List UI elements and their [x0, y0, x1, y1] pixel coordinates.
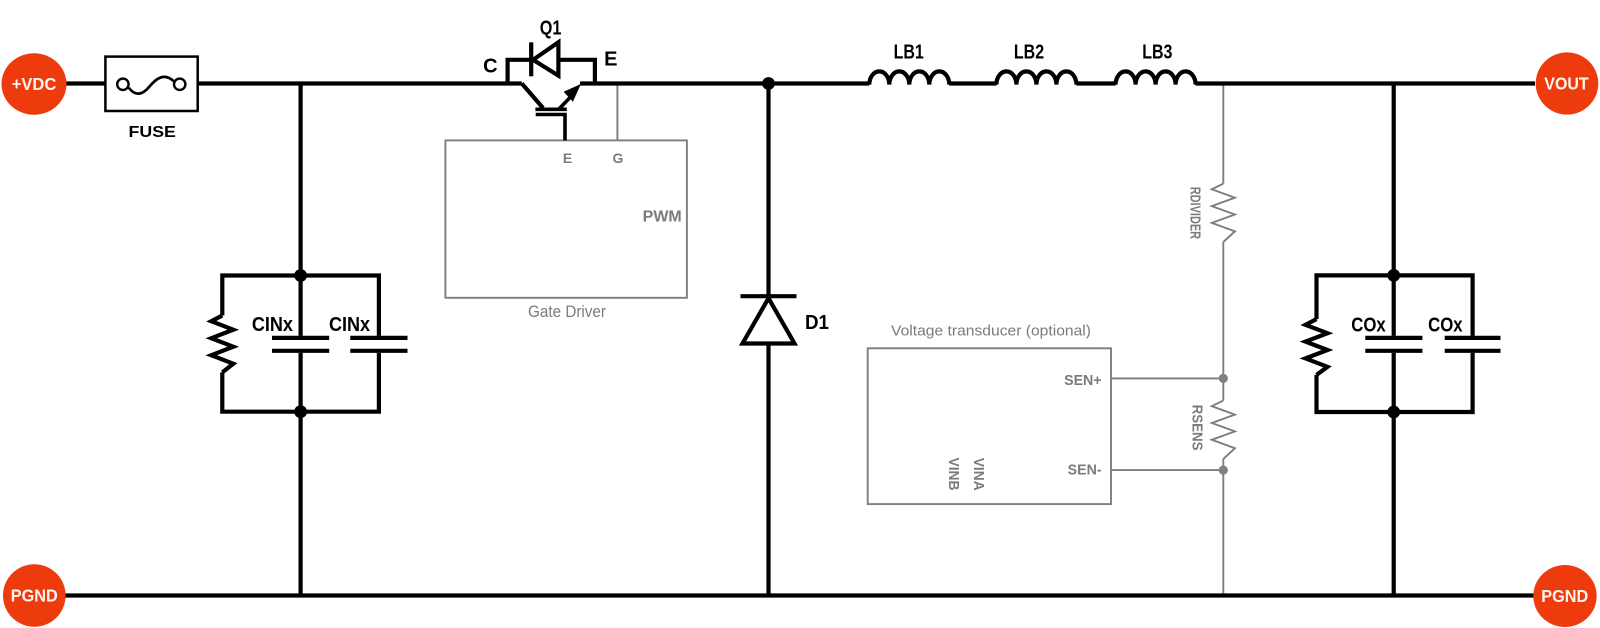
svg-text:COx: COx — [1428, 315, 1463, 337]
svg-text:E: E — [604, 49, 617, 71]
svg-text:VINA: VINA — [970, 458, 987, 491]
svg-text:PGND: PGND — [11, 586, 58, 606]
svg-text:LB2: LB2 — [1014, 42, 1044, 64]
svg-text:CINx: CINx — [252, 314, 293, 336]
svg-text:Gate Driver: Gate Driver — [528, 303, 606, 321]
svg-text:LB3: LB3 — [1142, 42, 1172, 64]
svg-text:E: E — [563, 150, 572, 166]
svg-text:CINx: CINx — [329, 314, 370, 336]
svg-text:G: G — [613, 150, 624, 166]
svg-text:SEN-: SEN- — [1068, 462, 1102, 478]
svg-text:COx: COx — [1351, 315, 1386, 337]
svg-text:C: C — [483, 55, 497, 77]
svg-text:PWM: PWM — [643, 209, 682, 226]
svg-text:RSENS: RSENS — [1189, 405, 1205, 451]
svg-text:Q1: Q1 — [540, 17, 562, 39]
svg-text:+VDC: +VDC — [12, 74, 57, 94]
svg-text:FUSE: FUSE — [129, 124, 177, 141]
svg-text:SEN+: SEN+ — [1064, 373, 1102, 389]
svg-text:VOUT: VOUT — [1544, 74, 1589, 94]
svg-text:Voltage transducer (optional): Voltage transducer (optional) — [891, 323, 1091, 340]
svg-text:D1: D1 — [805, 312, 829, 334]
svg-text:LB1: LB1 — [894, 42, 924, 64]
svg-text:PGND: PGND — [1541, 586, 1588, 606]
svg-text:VINB: VINB — [945, 458, 962, 491]
svg-text:RDIVIDER: RDIVIDER — [1187, 187, 1203, 240]
